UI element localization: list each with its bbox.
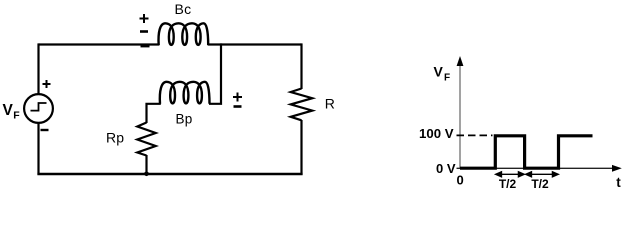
svg-text:Bp: Bp <box>176 112 193 127</box>
graph: x-axis <box>457 167 615 169</box>
source VF step glyph <box>31 103 47 111</box>
polarity tick on wire (Bc) <box>141 44 150 47</box>
graph: y-axis <box>459 60 461 168</box>
polarity + (Bc) <box>140 14 149 23</box>
label VF (source) <box>3 102 21 122</box>
graph: dashed 100V level line <box>457 134 493 136</box>
graph: y-axis arrowhead <box>457 56 464 66</box>
svg-text:0: 0 <box>457 173 464 188</box>
wire: Rp bottom lead <box>145 155 147 175</box>
wire: top rail right segment <box>208 43 302 45</box>
svg-text:R: R <box>325 95 335 111</box>
svg-text:T/2: T/2 <box>499 177 517 191</box>
inductor Bp <box>160 82 210 104</box>
graph: dimension arrow T/2 first <box>496 172 525 177</box>
svg-text:100 V: 100 V <box>419 126 454 141</box>
wire: right rail lower <box>300 120 302 175</box>
graph: x-axis arrowhead <box>612 165 622 172</box>
svg-text:t: t <box>616 175 621 190</box>
source VF circle <box>24 94 53 123</box>
polarity + (Bp) <box>233 93 242 102</box>
svg-text:V: V <box>434 64 444 80</box>
wire: right rail upper <box>300 43 302 89</box>
graph: dimension arrow T/2 second <box>526 172 559 177</box>
polarity + (source) <box>43 80 51 88</box>
wire: bottom rail <box>37 173 302 176</box>
wire: left rail upper <box>37 43 39 94</box>
wire: Bp left lead to Rp <box>147 104 161 123</box>
polarity - (source) <box>41 129 49 131</box>
resistor R <box>291 89 313 121</box>
polarity - (Bp) <box>234 105 242 108</box>
polarity - (Bc) <box>140 30 148 33</box>
svg-text:Rp: Rp <box>106 130 124 146</box>
inductor Bc <box>159 23 209 45</box>
svg-text:F: F <box>13 109 20 121</box>
svg-text:V: V <box>3 102 14 119</box>
resistor Rp <box>137 123 155 156</box>
wire: left rail lower <box>37 123 39 175</box>
wire: top rail left segment <box>39 43 160 45</box>
junction: Rp to bottom rail <box>144 172 149 177</box>
svg-text:0 V: 0 V <box>436 161 456 176</box>
svg-text:F: F <box>444 73 450 84</box>
svg-text:T/2: T/2 <box>531 177 549 191</box>
graph: square wave <box>460 136 593 168</box>
wire: vertical drop to Bp <box>209 43 221 103</box>
graph: label VF <box>434 64 451 84</box>
svg-text:Bc: Bc <box>175 1 192 17</box>
